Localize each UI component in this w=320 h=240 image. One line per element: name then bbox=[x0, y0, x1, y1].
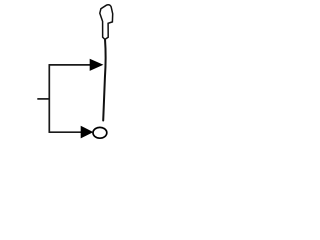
ellipse terminal (bottom node) bbox=[93, 127, 107, 138]
pointer stem line (pole from flag down) bbox=[103, 39, 105, 120]
arrowhead (top, points right at stem line) bbox=[90, 59, 104, 71]
wire: input stub bbox=[37, 98, 49, 100]
flag-shaped pointer (outlined polygon at top) bbox=[100, 5, 113, 40]
arrowhead (bottom, points right at ellipse) bbox=[81, 126, 94, 139]
wire: bottom branch bbox=[49, 131, 82, 133]
wire: top branch bbox=[49, 64, 91, 66]
wire: branch vertical (left bracket) bbox=[48, 65, 50, 132]
